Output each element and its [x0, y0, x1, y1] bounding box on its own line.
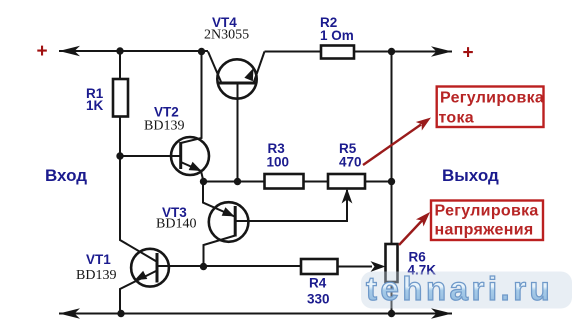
svg-text:+: + — [462, 43, 473, 64]
svg-text:470: 470 — [339, 155, 362, 170]
svg-text:Выход: Выход — [442, 166, 499, 185]
svg-text:Вход: Вход — [45, 166, 87, 185]
svg-text:1K: 1K — [86, 98, 104, 113]
svg-text:100: 100 — [267, 155, 290, 170]
svg-text:BD139: BD139 — [76, 268, 116, 283]
svg-text:tehnari.ru: tehnari.ru — [366, 270, 553, 307]
svg-text:Регулировка: Регулировка — [435, 203, 539, 220]
svg-text:2N3055: 2N3055 — [204, 28, 249, 43]
svg-text:BD140: BD140 — [156, 217, 196, 232]
svg-text:напряжения: напряжения — [435, 222, 534, 239]
svg-text:BD139: BD139 — [144, 119, 184, 134]
svg-text:тока: тока — [439, 110, 475, 127]
svg-text:VT1: VT1 — [86, 252, 111, 267]
svg-text:VT2: VT2 — [154, 105, 179, 120]
svg-text:330: 330 — [307, 292, 330, 307]
svg-text:1 Om: 1 Om — [320, 28, 354, 43]
svg-text:Регулировка: Регулировка — [440, 90, 544, 107]
svg-text:R4: R4 — [309, 276, 327, 291]
svg-text:+: + — [36, 41, 47, 62]
